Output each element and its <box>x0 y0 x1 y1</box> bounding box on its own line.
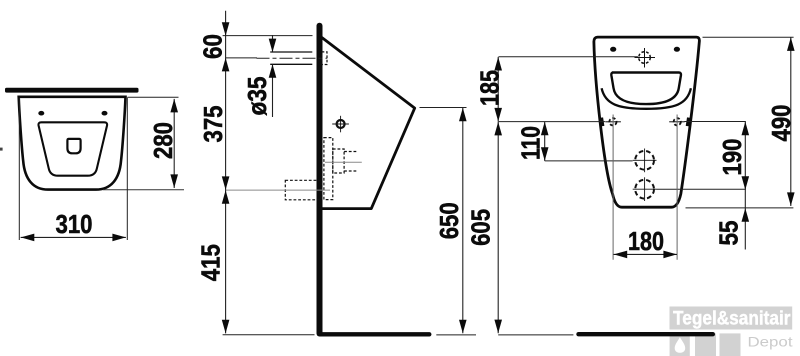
extension line upper drain y=160.9 <box>545 160 633 162</box>
left dimension chain main line <box>225 11 227 334</box>
svg-text:55: 55 <box>713 221 743 246</box>
floor extension tick right <box>498 334 573 336</box>
mounting hole right (front view) <box>669 118 685 125</box>
side notch right <box>688 118 689 127</box>
svg-text:605: 605 <box>465 209 495 246</box>
svg-text:375: 375 <box>198 106 228 143</box>
drain pipe dashed rect behind wall <box>285 180 321 200</box>
svg-text:310: 310 <box>56 209 93 239</box>
fixing dot left (top view) <box>38 111 44 116</box>
extension line hole right vertical <box>676 115 678 260</box>
dimension 180 line <box>614 253 678 255</box>
internal centerline gray <box>325 161 362 163</box>
fixing dot right (top view) <box>102 111 108 116</box>
extension line holes y=121.5 right <box>684 121 746 123</box>
tick at top of urinal y=35.7 <box>223 35 313 37</box>
dimension 650 extension top <box>420 107 467 109</box>
svg-text:415: 415 <box>195 244 225 281</box>
inlet centerline <box>257 57 328 59</box>
svg-text:490: 490 <box>766 105 796 142</box>
inlet hole crosshair (front view) <box>635 48 656 68</box>
edge artifact mark <box>0 148 3 151</box>
inlet spigot top line <box>270 51 312 53</box>
svg-text:60: 60 <box>197 34 227 59</box>
dimension o35 line upper <box>272 35 274 52</box>
dimension 605 line <box>497 122 499 334</box>
dimension o35 line lower <box>272 64 274 117</box>
urinal inner rim (top view) <box>38 122 107 175</box>
svg-text:190: 190 <box>717 139 747 176</box>
inlet spigot dashed stub through wall <box>322 52 327 65</box>
dimension 280 extension bottom <box>103 189 184 191</box>
svg-text:ø35: ø35 <box>242 77 272 116</box>
extension line holes y=121.6 left <box>499 121 606 123</box>
mounting hole crosshair (side view) <box>332 116 349 133</box>
wall (side view) <box>317 26 323 334</box>
svg-text:Tegel&sanitair: Tegel&sanitair <box>673 309 791 330</box>
mounting hole left (front view) <box>605 118 621 125</box>
drain centerline gray <box>226 189 330 191</box>
chain arrows <box>222 22 230 36</box>
svg-text:280: 280 <box>148 122 178 159</box>
wall bar (top view) <box>5 88 139 93</box>
urinal outline (front view) <box>594 37 700 207</box>
drain hole lower (front view) <box>633 177 657 201</box>
dashed line lower <box>344 170 358 172</box>
internal inlet dashed rect <box>333 149 344 173</box>
internal flush channel dashed rect <box>324 138 333 200</box>
floor line (front view) <box>579 332 713 336</box>
drain hole upper (front view) <box>633 149 657 173</box>
inlet spigot bottom line <box>270 63 312 65</box>
dimension 55 line <box>742 208 750 222</box>
extension line hole left vertical <box>612 115 614 260</box>
dimension 280 extension top <box>128 96 179 98</box>
basin opening (front view) <box>611 73 681 105</box>
dimension 185 line <box>497 57 499 122</box>
dimension 190 line <box>744 122 746 250</box>
dimension 490 line <box>790 37 792 206</box>
drain square (top view) <box>67 139 80 153</box>
extension line bottom y=207.7 <box>686 207 794 209</box>
side notch left <box>601 118 602 127</box>
dimension 310 extension left <box>18 98 20 240</box>
fixing dot left (front view) <box>610 47 616 52</box>
urinal outer outline (top view) <box>19 97 126 190</box>
floor extension tick left <box>223 334 315 336</box>
floor line (side view) <box>320 332 429 336</box>
floor extension tick middle <box>436 334 476 336</box>
dimension 310 extension right <box>126 98 128 241</box>
watermark squares <box>670 333 741 356</box>
tick at inlet center y=57.9 <box>226 57 257 59</box>
fixing dot right (front view) <box>674 47 680 52</box>
dashed line upper <box>344 151 358 153</box>
extension line inlet y=56.8 <box>499 56 638 58</box>
bowl lip curve (front view) <box>602 88 691 109</box>
svg-text:185: 185 <box>474 70 504 106</box>
svg-text:650: 650 <box>434 202 464 239</box>
dimension 280 line <box>173 99 175 188</box>
svg-text:110: 110 <box>515 126 545 160</box>
dimension 310 line <box>21 236 126 238</box>
extension line lower drain y=189.3 <box>657 188 746 190</box>
dimension 650 line <box>462 108 464 334</box>
dimension 110 line <box>544 122 546 161</box>
svg-text:180: 180 <box>628 226 664 256</box>
extension line top y=37.2 <box>703 36 794 38</box>
svg-text:Depot: Depot <box>748 334 793 350</box>
watermark logo band <box>670 307 793 330</box>
urinal profile (side view) <box>318 37 415 209</box>
watermark drop icon <box>675 337 686 353</box>
